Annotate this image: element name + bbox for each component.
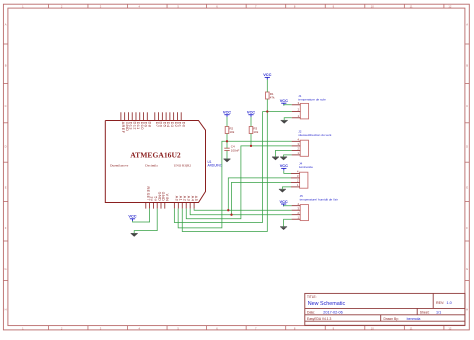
wire VCC to J1 pin3 — [284, 104, 292, 107]
svg-text:temperature de sole: temperature de sole — [298, 98, 326, 102]
svg-text:VCC: VCC — [128, 214, 136, 219]
svg-text:EasyEDA V4.1.3: EasyEDA V4.1.3 — [307, 317, 332, 321]
svg-text:REV:: REV: — [436, 301, 444, 305]
ground at J4 pin1 — [279, 189, 286, 192]
wire node A to J1 pin2 — [263, 111, 292, 113]
junction SDA bus tap — [230, 214, 232, 216]
wire U1 5v pin to VCC — [133, 209, 150, 222]
ground at J5 pin1 — [280, 227, 287, 230]
Drawn By cell — [384, 317, 421, 321]
wire VCC to R2 — [226, 117, 228, 127]
svg-text:Sheet:: Sheet: — [420, 310, 430, 314]
svg-text:1/1: 1/1 — [436, 310, 441, 314]
svg-text:A1: A1 — [178, 196, 182, 202]
title block TITLE label — [307, 295, 317, 299]
svg-text:ATMEGA16U2: ATMEGA16U2 — [130, 150, 181, 159]
U1 bottom pins RESET 3v 5v GND GND VIN A0-A5 — [146, 187, 198, 209]
svg-text:Decimila: Decimila — [145, 163, 158, 167]
Date row — [307, 310, 343, 314]
resistor R2 10k — [225, 127, 235, 135]
junction node B at R2 — [226, 140, 228, 142]
svg-text:4: 4 — [298, 138, 300, 142]
svg-text:luminosite: luminosite — [299, 165, 313, 169]
junction node A at R1 — [266, 110, 268, 112]
svg-text:A: A — [5, 23, 7, 27]
svg-text:11: 11 — [410, 326, 413, 330]
title block — [305, 293, 465, 325]
U1 sub label Duemilanove — [110, 163, 129, 167]
svg-text:1: 1 — [298, 215, 300, 219]
wire J5 pin1 to ground — [284, 219, 292, 227]
svg-text:G: G — [466, 267, 468, 271]
wire J2 pin4 line to A1 level — [178, 141, 291, 228]
svg-text:D3: D3 — [170, 122, 174, 128]
svg-text:12: 12 — [448, 4, 451, 8]
svg-text:3: 3 — [298, 206, 300, 210]
ground at J2 pin2 — [272, 157, 279, 160]
op-amp U1 body: ARDUINO ATMEGA16U2 symbol outline — [105, 121, 205, 203]
wire C4 to ground — [226, 151, 228, 160]
wire J4 pin1 to ground — [282, 187, 291, 189]
U1 main label ATMEGA16U2 — [130, 150, 181, 159]
svg-text:100nF: 100nF — [231, 148, 240, 152]
ground at J2 pin1 — [280, 157, 287, 160]
svg-text:VCC: VCC — [280, 98, 288, 103]
wire J4 pin2 line to SDA bus — [232, 182, 292, 214]
wire SCL bus A5 to J5 pin3 — [194, 209, 292, 211]
wire R3 to node C — [250, 134, 252, 146]
wire SDA bus A4 to J5 pin2 — [190, 209, 291, 215]
VCC symbol at J1 — [280, 98, 288, 105]
svg-text:D13: D13 — [129, 122, 133, 130]
svg-text:D12: D12 — [132, 122, 136, 130]
svg-text:E: E — [5, 185, 7, 189]
svg-text:10k: 10k — [253, 130, 258, 134]
svg-text:B: B — [5, 63, 7, 67]
svg-text:5v: 5v — [154, 196, 158, 201]
svg-text:D2: D2 — [174, 122, 178, 128]
svg-text:VCC: VCC — [263, 72, 271, 77]
svg-text:D8: D8 — [147, 122, 151, 128]
svg-text:RESET: RESET — [146, 187, 150, 202]
svg-text:GND: GND — [157, 192, 161, 202]
svg-text:12: 12 — [448, 326, 451, 330]
wire VCC to R1 — [266, 80, 268, 92]
svg-text:GND: GND — [161, 192, 165, 202]
svg-text:D: D — [466, 145, 468, 149]
REV label — [436, 301, 452, 305]
svg-text:4: 4 — [298, 202, 300, 206]
svg-text:D7: D7 — [155, 122, 159, 128]
svg-text:D6: D6 — [159, 122, 163, 128]
svg-text:VCC: VCC — [247, 110, 255, 115]
Sheet cell — [420, 310, 442, 314]
connector J1 temperature de sole — [292, 94, 326, 119]
svg-text:D9: D9 — [144, 122, 148, 128]
connector J5 temperature/humidit de l air — [292, 194, 338, 221]
wire node A down to A2 level — [182, 112, 267, 232]
U1 top pins AREF GND D13-D0 — [121, 112, 185, 133]
svg-text:1.0: 1.0 — [447, 301, 452, 305]
wire U1 GND pin to ground — [134, 209, 157, 234]
svg-text:D5: D5 — [162, 122, 166, 128]
resistor R3 10k — [249, 127, 259, 135]
wire VCC to J5 pin4 — [284, 205, 292, 208]
EasyEDA version cell — [307, 317, 332, 321]
wire node B to C4 — [226, 141, 228, 148]
svg-text:G: G — [5, 267, 7, 271]
svg-text:A0: A0 — [174, 196, 178, 202]
svg-text:Drawn By:: Drawn By: — [384, 317, 399, 321]
svg-text:UNO R3(R2: UNO R3(R2 — [174, 163, 192, 167]
svg-text:VIN: VIN — [165, 194, 169, 202]
svg-text:D10: D10 — [140, 122, 144, 130]
svg-text:2017-02-06: 2017-02-06 — [323, 310, 342, 314]
wire J2 pin1 to ground — [284, 155, 292, 157]
svg-text:A5: A5 — [194, 196, 198, 202]
VCC symbol at J4 — [280, 163, 288, 170]
svg-text:AREF: AREF — [121, 122, 125, 134]
wire J2 pin3 line to A3 level — [186, 146, 291, 219]
svg-text:ARDUINO: ARDUINO — [208, 164, 223, 168]
VCC symbol above R2 — [223, 110, 231, 117]
wire R2 to node B — [226, 134, 228, 142]
junction SCL bus tap — [227, 209, 229, 211]
svg-text:3v: 3v — [150, 196, 154, 201]
VCC symbol at J5 — [279, 199, 287, 206]
svg-text:vitesse/direction du vent: vitesse/direction du vent — [298, 133, 331, 137]
wire J2 pin2 to ground — [276, 150, 292, 157]
svg-text:temperature/ humidit de l'air: temperature/ humidit de l'air — [300, 198, 338, 202]
svg-text:H: H — [5, 308, 7, 312]
svg-text:VCC: VCC — [223, 110, 231, 115]
svg-text:47k: 47k — [270, 96, 275, 100]
wire J1 pin1 to ground — [284, 118, 292, 121]
U1 sub label UNO R3(R2 — [174, 163, 192, 167]
ground at U1 GND pin — [131, 234, 138, 237]
U1 designator label — [208, 160, 223, 168]
U1 sub label Decimila — [145, 163, 158, 167]
svg-text:A3: A3 — [186, 196, 190, 202]
svg-text:D11: D11 — [136, 122, 140, 130]
resistor R1 47k — [266, 92, 276, 100]
svg-text:D: D — [5, 145, 7, 149]
svg-text:Duemilanove: Duemilanove — [110, 163, 129, 167]
svg-text:D0: D0 — [181, 122, 185, 128]
capacitor C4 100nF — [224, 145, 239, 153]
svg-text:Date:: Date: — [307, 310, 315, 314]
svg-text:2: 2 — [298, 211, 300, 215]
svg-text:F: F — [5, 226, 7, 230]
title text New Schematic — [308, 301, 346, 307]
wire VCC to R3 — [250, 117, 252, 127]
svg-text:A4: A4 — [190, 196, 194, 202]
svg-text:10: 10 — [371, 326, 374, 330]
svg-text:VCC: VCC — [279, 199, 287, 204]
svg-text:C: C — [466, 104, 468, 108]
wire J4 pin3 line to SCL bus — [228, 178, 291, 210]
svg-text:A2: A2 — [182, 196, 186, 202]
svg-text:D1: D1 — [178, 122, 182, 128]
svg-text:10k: 10k — [229, 130, 234, 134]
svg-text:TITLE:: TITLE: — [307, 295, 317, 299]
svg-text:New Schematic: New Schematic — [308, 301, 346, 307]
ground at C4 — [224, 159, 231, 162]
ground at J1 pin1 — [281, 120, 288, 123]
svg-text:E: E — [466, 185, 468, 189]
connector J4 luminosite — [291, 162, 313, 189]
wire A0 to node A (soil temp net) — [174, 112, 262, 223]
svg-text:C: C — [5, 104, 7, 108]
connector J2 vitesse/direction du vent — [292, 129, 332, 156]
svg-text:10: 10 — [371, 4, 374, 8]
wire R1 to node A — [266, 99, 268, 112]
svg-text:F: F — [466, 226, 468, 230]
svg-text:A: A — [466, 23, 468, 27]
svg-text:GND: GND — [125, 122, 129, 132]
svg-text:D4: D4 — [166, 122, 170, 128]
VCC symbol at U1 5v pin — [128, 214, 136, 221]
svg-text:11: 11 — [410, 4, 413, 8]
junction node C at R3 — [250, 145, 252, 147]
svg-text:benmola: benmola — [407, 317, 421, 321]
svg-text:B: B — [466, 63, 468, 67]
svg-text:H: H — [466, 308, 468, 312]
wire VCC to J4 pin4 — [284, 171, 291, 174]
svg-text:VCC: VCC — [280, 163, 288, 168]
VCC symbol above R3 — [247, 110, 255, 117]
VCC symbol above R1 — [263, 72, 271, 79]
